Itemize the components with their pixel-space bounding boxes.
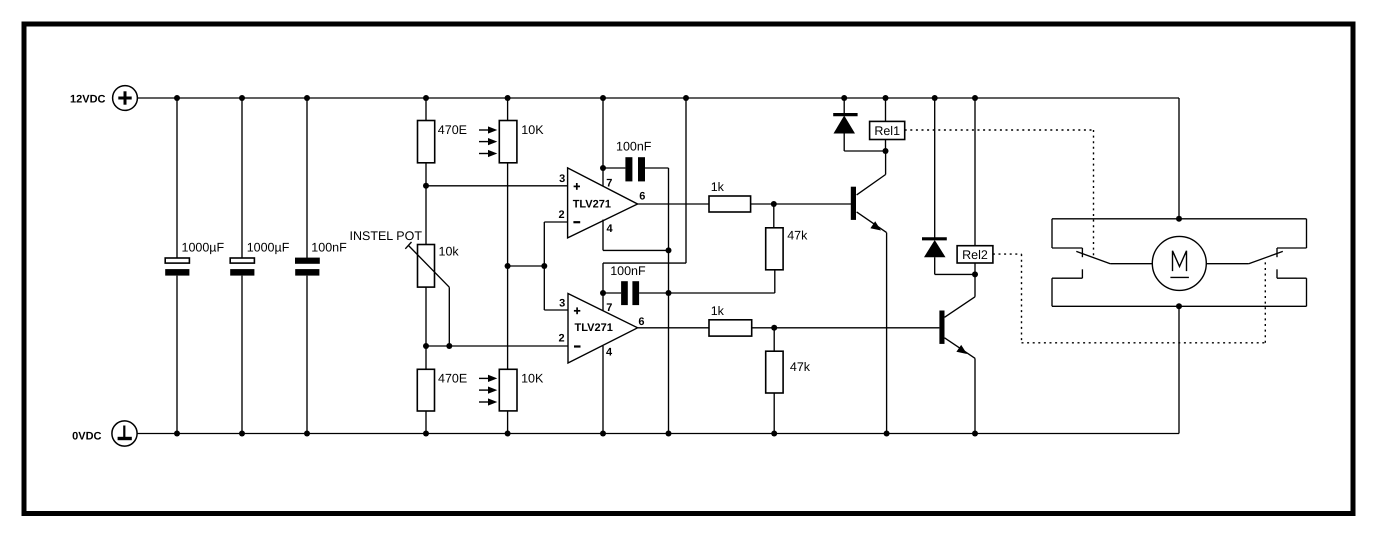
- wire 12V feed to motor bridge: [1178, 98, 1180, 219]
- svg-text:1k: 1k: [711, 304, 725, 318]
- svg-text:3: 3: [559, 297, 565, 309]
- wire node to op-amp U1 pin 3: [426, 185, 568, 187]
- svg-text:6: 6: [638, 316, 644, 328]
- svg-text:Rel2: Rel2: [962, 248, 988, 262]
- wire: [425, 163, 427, 245]
- diode D2 flyback: [922, 98, 975, 274]
- capacitor 1000µF: [165, 98, 189, 434]
- svg-text:470E: 470E: [438, 123, 467, 137]
- wire: [425, 287, 427, 369]
- wire U1 pin 4: [603, 220, 669, 251]
- svg-text:2: 2: [558, 333, 564, 345]
- svg-text:10k: 10k: [439, 245, 460, 259]
- resistor 1k upper: [709, 196, 751, 212]
- potentiometer 10k INSTEL POT: [405, 242, 449, 346]
- svg-text:1000µF: 1000µF: [247, 241, 290, 255]
- wire ground return vertical: [668, 168, 670, 434]
- svg-text:47k: 47k: [790, 360, 811, 374]
- dotted link Rel1 to left contact: [905, 130, 1094, 256]
- wire motor bridge to 0V: [1178, 306, 1180, 433]
- relay contact right: [1206, 219, 1306, 306]
- svg-text:12VDC: 12VDC: [70, 93, 106, 105]
- wire: [752, 327, 940, 329]
- svg-text:1000µF: 1000µF: [182, 241, 225, 255]
- resistor 470E upper: [418, 121, 435, 163]
- svg-text:10K: 10K: [521, 123, 544, 137]
- wire U2 output: [638, 327, 709, 329]
- svg-text:INSTEL POT: INSTEL POT: [350, 229, 423, 243]
- svg-text:47k: 47k: [787, 229, 808, 243]
- wire U1 output: [638, 203, 709, 205]
- dotted link Rel2 to right contact: [993, 254, 1265, 343]
- svg-text:Rel1: Rel1: [874, 124, 900, 138]
- svg-text:2: 2: [558, 209, 564, 221]
- svg-text:4: 4: [607, 223, 614, 235]
- resistor 47k upper: [766, 204, 783, 293]
- wire node to op-amp U2 pin 2: [426, 345, 568, 347]
- wire LDR node to comparator inputs: [508, 222, 568, 310]
- svg-text:3: 3: [559, 173, 565, 185]
- svg-text:470E: 470E: [438, 372, 467, 386]
- wire: [425, 98, 427, 121]
- wire U2 pin 4 to ground: [602, 346, 604, 434]
- wire: [507, 411, 509, 434]
- wire: [507, 163, 509, 369]
- svg-text:TLV271: TLV271: [575, 322, 613, 334]
- svg-text:7: 7: [606, 302, 612, 314]
- wire motor bridge bottom bar: [1052, 305, 1307, 307]
- wire: [507, 98, 509, 121]
- diode D1 flyback: [833, 98, 885, 151]
- svg-text:100nF: 100nF: [311, 241, 347, 255]
- svg-text:4: 4: [606, 347, 613, 359]
- op-amp U1 TLV271: [568, 168, 638, 238]
- wire motor bridge top bar: [1052, 218, 1307, 220]
- svg-text:6: 6: [639, 190, 645, 202]
- LDR 10K upper: [499, 121, 517, 163]
- resistor 470E lower: [417, 369, 434, 411]
- svg-text:100nF: 100nF: [610, 264, 646, 278]
- wire 12V top rail: [137, 97, 1179, 99]
- wire 0V bottom rail: [137, 433, 1179, 435]
- svg-text:7: 7: [606, 178, 612, 190]
- capacitor 100nF: [295, 98, 320, 434]
- light arrows upper LDR: [479, 126, 497, 157]
- svg-text:100nF: 100nF: [616, 139, 652, 153]
- 12VDC supply terminal: [113, 86, 138, 111]
- transistor Q1: [851, 151, 887, 434]
- svg-text:0VDC: 0VDC: [72, 431, 101, 443]
- transistor Q2: [939, 274, 975, 433]
- relay coil Rel2: [957, 98, 993, 274]
- wire: [425, 411, 427, 434]
- capacitor 1000µF: [230, 98, 254, 434]
- resistor 1k lower: [709, 320, 752, 336]
- wire: [751, 203, 852, 205]
- svg-text:10K: 10K: [521, 372, 544, 386]
- LDR 10K lower: [499, 369, 517, 411]
- resistor 47k lower: [766, 328, 783, 434]
- light arrows lower LDR: [479, 375, 497, 406]
- svg-text:TLV271: TLV271: [573, 198, 611, 210]
- wire U1 pin 7 to 12V: [602, 98, 604, 186]
- wire 12V to U2 pin 7: [603, 98, 686, 311]
- capacitor 100nF U1 decoupling: [603, 157, 669, 181]
- svg-text:1k: 1k: [711, 180, 725, 194]
- 0VDC ground terminal: [112, 421, 137, 446]
- op-amp U2 TLV271: [568, 294, 638, 364]
- relay coil Rel1: [870, 98, 905, 151]
- relay contact left: [1052, 219, 1152, 306]
- capacitor 100nF U2 decoupling: [603, 281, 775, 305]
- motor M: [1152, 236, 1206, 290]
